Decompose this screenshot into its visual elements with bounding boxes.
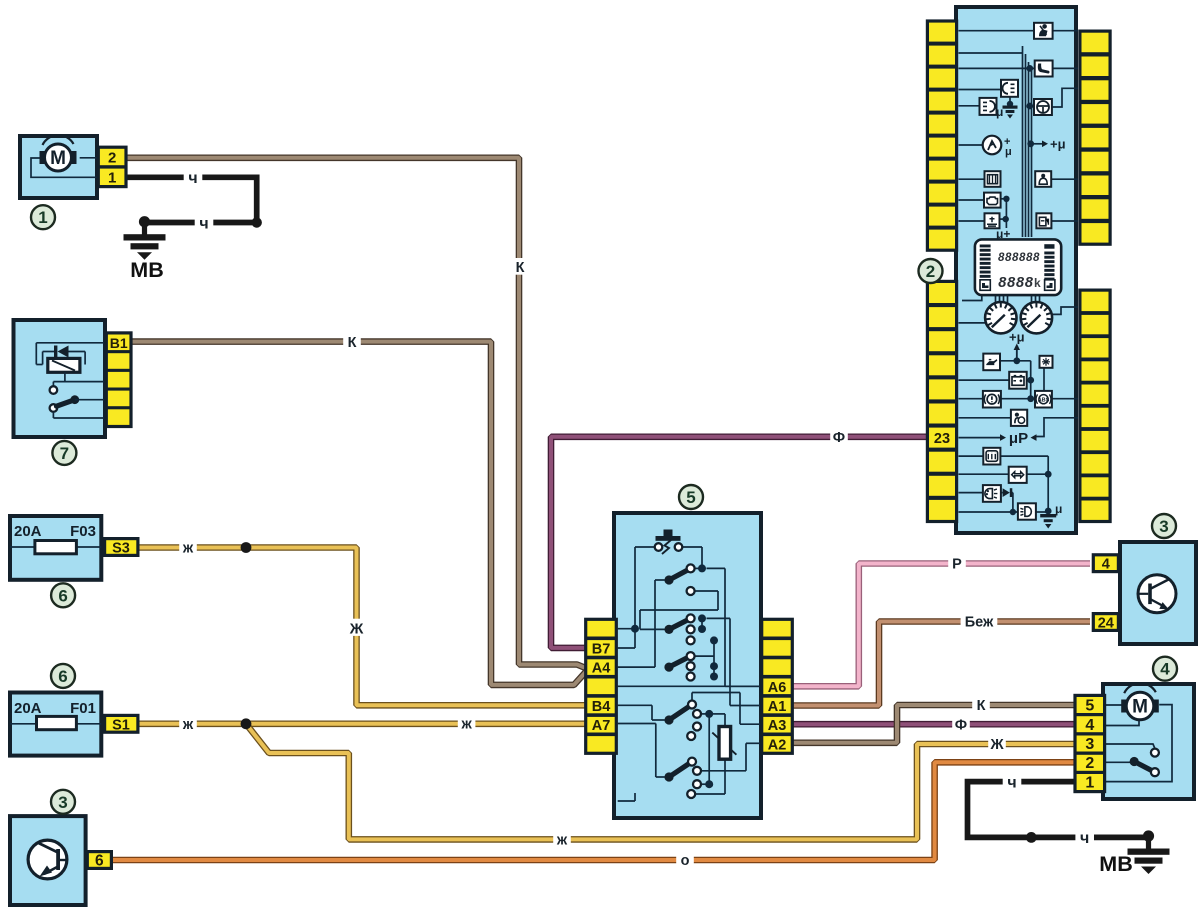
- component 1 electric motor box: [20, 136, 97, 198]
- label К on motor-1 wire: [511, 258, 529, 276]
- callout 3 bottom-left: [51, 790, 75, 814]
- push button of component 5: [655, 530, 683, 555]
- junction dot on ground wire: [1026, 832, 1037, 843]
- svg-text:1: 1: [38, 208, 47, 227]
- junction dot on pin line: [631, 625, 639, 633]
- icon rear fog lamp: [1001, 80, 1018, 97]
- switch contacts of component 4: [1130, 749, 1159, 777]
- wire Ф switch-5 pin A3 to motor-4 pin 4: [792, 721, 1075, 728]
- svg-text:B4: B4: [592, 699, 611, 715]
- ground МВ left: [124, 216, 166, 260]
- svg-text:4: 4: [1085, 717, 1094, 734]
- internal circuit lines of instrument cluster: [959, 31, 1079, 512]
- switch lever 5 of component 5: [664, 758, 701, 798]
- label Беж on beige wire: [961, 613, 998, 631]
- connector pins 5-1 of component 4: [1073, 694, 1106, 793]
- svg-text:5: 5: [686, 488, 695, 507]
- svg-text:Ж: Ж: [349, 620, 364, 637]
- svg-text:A1: A1: [768, 699, 787, 715]
- fuse F01 box (component 6): [10, 693, 101, 756]
- svg-text:ж: ж: [556, 833, 568, 849]
- svg-text:Р: Р: [952, 557, 962, 573]
- callout 3 right: [1152, 514, 1176, 538]
- component 7 relay box: [14, 320, 106, 437]
- icon fuel: [1036, 213, 1051, 228]
- svg-text:3: 3: [1085, 736, 1094, 753]
- svg-text:20А: 20А: [14, 523, 42, 540]
- wire Р switch-5 pin A6 to unit-3 pin 4: [792, 564, 1090, 687]
- svg-text:6: 6: [58, 667, 67, 686]
- label ч near pin 1: [1003, 772, 1022, 792]
- label μР with arrows: [1000, 430, 1037, 447]
- svg-text:F03: F03: [70, 523, 96, 540]
- component 3 box bottom-left: [10, 816, 86, 905]
- svg-text:6: 6: [95, 853, 104, 870]
- svg-text:3: 3: [58, 793, 67, 812]
- svg-text:МВ: МВ: [130, 258, 163, 282]
- relay internals: diode, coil, contacts: [36, 343, 104, 418]
- svg-text:ч: ч: [199, 215, 208, 232]
- svg-text:К: К: [977, 698, 986, 714]
- connector pins of component 7 (B1): [105, 331, 133, 428]
- wire Ф switch-5 pin B7 to cluster pin 23: [551, 437, 927, 648]
- wire Ж fuse F01 S1 to switch-5 pin A7: [138, 720, 585, 727]
- svg-text:μ: μ: [1055, 502, 1062, 516]
- small ground symbol under fog icon: [996, 101, 1018, 119]
- gauge 2 of cluster: [1021, 302, 1052, 333]
- component 3 box right: [1120, 542, 1196, 644]
- svg-text:μ: μ: [996, 105, 1003, 119]
- svg-text:+μ: +μ: [1009, 330, 1025, 345]
- svg-text:ж: ж: [460, 717, 472, 733]
- label Ф on purple wire right: [952, 715, 970, 733]
- resistor of component 5: [712, 727, 736, 760]
- callout 6 (F01): [51, 664, 75, 688]
- transistor symbol of component 3: [28, 840, 67, 879]
- svg-text:+μ: +μ: [1050, 137, 1066, 152]
- label ч upper: [184, 167, 203, 187]
- label ч lower: [195, 213, 214, 233]
- svg-text:μР: μР: [1009, 430, 1028, 447]
- label о on orange wire: [676, 851, 694, 869]
- label ж on branch wire: [553, 830, 571, 848]
- svg-text:k: k: [1034, 276, 1041, 290]
- svg-text:5: 5: [1085, 698, 1094, 715]
- LCD display of cluster: [975, 239, 1061, 295]
- right upper connector pins of cluster: [1078, 30, 1111, 246]
- icon front fog lamp: [980, 98, 997, 115]
- contact dot: [698, 564, 706, 572]
- icon rear window defrost: [983, 448, 1000, 465]
- svg-text:A7: A7: [592, 718, 611, 734]
- junction corner dot: [252, 217, 262, 227]
- icon immobilizer circle: [983, 136, 1012, 158]
- svg-text:о: о: [681, 853, 690, 869]
- svg-text:ч: ч: [1007, 774, 1016, 791]
- component 2 instrument cluster box: [956, 7, 1076, 533]
- icon battery: [1009, 372, 1026, 389]
- svg-text:A6: A6: [768, 680, 787, 696]
- motor M of component 4: [1121, 683, 1159, 720]
- diode symbol in cluster: [1003, 488, 1013, 497]
- wire ч motor-4 pin1 to ground МВ: [968, 782, 1149, 838]
- junction dot S1 wire: [241, 718, 252, 729]
- switch lever 4 of component 5: [664, 701, 701, 741]
- callout 6 (F03): [51, 583, 75, 607]
- icon oil pressure: [983, 354, 1000, 371]
- svg-text:S3: S3: [112, 541, 130, 557]
- motor symbol M1: [31, 158, 99, 178]
- switch lever 1 of component 5: [664, 564, 694, 595]
- svg-text:2: 2: [108, 150, 116, 167]
- wire К switch-5 pin A2 to motor-4 pin 5: [792, 705, 1075, 743]
- right lower connector pins of cluster: [1078, 289, 1111, 524]
- switch lever 3 of component 5: [664, 652, 694, 680]
- svg-text:A3: A3: [768, 718, 787, 734]
- left upper connector pins of cluster: [926, 19, 958, 251]
- svg-text:7: 7: [60, 444, 69, 463]
- svg-text:F01: F01: [70, 700, 96, 717]
- junction dots inside cluster: [1003, 65, 1052, 515]
- ground label МВ left: [130, 258, 163, 282]
- svg-text:1: 1: [108, 169, 116, 186]
- icon seat belt: [1034, 23, 1053, 39]
- svg-text:2: 2: [1085, 755, 1094, 772]
- icon airbag warning: [1011, 410, 1027, 426]
- small ground symbol bottom of cluster: [1040, 502, 1062, 529]
- motor M of component 1: [40, 135, 77, 171]
- label Р on pink wire: [948, 555, 966, 573]
- svg-text:1: 1: [1085, 775, 1094, 792]
- label Ф on cluster wire: [830, 428, 848, 446]
- svg-text:A2: A2: [768, 737, 787, 753]
- svg-text:К: К: [516, 260, 525, 276]
- svg-text:М: М: [1132, 697, 1148, 718]
- label ч on ground wire right: [1075, 828, 1094, 848]
- icon heater: [985, 171, 1001, 187]
- svg-text:4: 4: [1160, 660, 1170, 679]
- svg-text:ч: ч: [188, 170, 197, 187]
- icon ABS: [1035, 391, 1052, 408]
- fuse F01 element: [10, 700, 101, 730]
- internal lines of component 4: [1106, 705, 1172, 782]
- icon brake: [983, 391, 1001, 408]
- svg-text:4: 4: [1102, 557, 1110, 573]
- wire Ж branch to motor-4 pin 3: [246, 724, 1075, 840]
- svg-text:2: 2: [926, 262, 935, 281]
- svg-text:М: М: [50, 148, 66, 169]
- svg-text:888888: 888888: [998, 252, 1040, 264]
- icon headlight washer: [983, 485, 1001, 502]
- label К on tan wire right: [972, 696, 990, 714]
- svg-text:23: 23: [934, 431, 950, 447]
- callout 2: [919, 259, 943, 283]
- icon snowflake: [1040, 356, 1053, 368]
- contact dot of lever 5: [705, 780, 713, 788]
- internal wiring of component 5: [618, 547, 761, 801]
- wire О sensor-3 pin 6 to motor-4 pin 2: [112, 762, 1075, 860]
- svg-text:B7: B7: [592, 641, 611, 657]
- svg-text:Беж: Беж: [965, 615, 994, 631]
- svg-text:ABS: ABS: [1038, 397, 1050, 403]
- svg-text:Ф: Ф: [955, 717, 967, 733]
- gauge 1 of cluster: [985, 302, 1016, 333]
- icon steering wheel: [1034, 99, 1052, 115]
- icon airbag: [1035, 171, 1051, 187]
- icon check engine: [984, 193, 1001, 208]
- pin S3: [103, 537, 140, 557]
- contact dot of lever 4: [705, 710, 713, 718]
- label Ж on yellow wire right: [988, 735, 1006, 753]
- svg-text:B1: B1: [110, 335, 128, 351]
- pin 6 of component 3: [86, 850, 113, 870]
- label ж on S1 wire: [179, 715, 197, 733]
- label ж on S1-A7 wire: [458, 715, 476, 733]
- label ж on S3 wire: [179, 539, 197, 557]
- label +μ with up arrow (mid): [1009, 330, 1025, 359]
- callout 4: [1153, 657, 1177, 681]
- wire Ж fuse F03 S3 to switch-5 pin B4: [138, 548, 585, 706]
- label К on relay wire: [343, 333, 361, 351]
- svg-text:3: 3: [1159, 517, 1168, 536]
- svg-text:A4: A4: [592, 661, 611, 677]
- transistor symbol of right component 3: [1138, 575, 1176, 613]
- wire ч motor-1 pin1 to ground МВ: [124, 177, 257, 222]
- connector pins 2,1 of component 1: [97, 146, 128, 189]
- svg-text:8888: 8888: [998, 275, 1034, 291]
- svg-text:Ж: Ж: [989, 737, 1004, 753]
- svg-text:МВ: МВ: [1099, 852, 1132, 876]
- svg-text:24: 24: [1098, 616, 1114, 632]
- wire Беж switch-5 pin A1 to unit-3 pin 24: [792, 622, 1090, 706]
- switch lever 2 of component 5: [664, 614, 694, 644]
- svg-text:S1: S1: [112, 717, 130, 733]
- svg-text:20А: 20А: [14, 700, 42, 717]
- callout 1: [31, 205, 55, 229]
- svg-text:ж: ж: [182, 541, 194, 557]
- svg-text:ж: ж: [182, 717, 194, 733]
- fuse F03 box (component 6): [10, 516, 101, 580]
- pin 4 of right component 3: [1092, 553, 1120, 573]
- wire К motor-1 pin2 to switch-5 pin A4: [124, 158, 587, 669]
- fuse F03 element: [10, 523, 101, 554]
- right connector pins of component 5 (A6 A1 A3 A2): [760, 618, 794, 755]
- callout 5: [679, 485, 703, 509]
- component 5 control unit box: [614, 513, 761, 818]
- left lower connector pins of cluster (pin 23): [926, 280, 958, 523]
- icon direction arrows: [1009, 467, 1027, 483]
- svg-text:Ф: Ф: [833, 430, 845, 446]
- icon low beam: [1018, 503, 1036, 519]
- icon oil level: [985, 213, 1000, 228]
- pin 24 of right component 3: [1092, 612, 1120, 632]
- ground label МВ right: [1099, 852, 1132, 876]
- label Ж on vertical wire: [348, 619, 366, 638]
- component 4 motor box: [1103, 684, 1194, 799]
- ground МВ right: [1128, 830, 1170, 874]
- contact dots of lever 2: [698, 614, 718, 644]
- label μ+: [996, 227, 1010, 241]
- wire К relay-7 pin B1 to switch-5 pin A4: [132, 342, 587, 685]
- svg-text:ч: ч: [1080, 830, 1089, 847]
- callout 7: [52, 441, 76, 465]
- left connector pins of component 5 (B7 A4 B4 A7): [584, 618, 618, 755]
- svg-text:К: К: [348, 335, 357, 351]
- svg-text:6: 6: [58, 586, 67, 605]
- junction dot S3 wire: [241, 542, 252, 553]
- svg-text:μ: μ: [1005, 146, 1012, 158]
- icon heated seat: [1035, 61, 1053, 77]
- pin S1: [103, 714, 140, 734]
- contact dots of lever 3: [710, 662, 718, 680]
- label +μ with arrow (top): [1034, 137, 1066, 152]
